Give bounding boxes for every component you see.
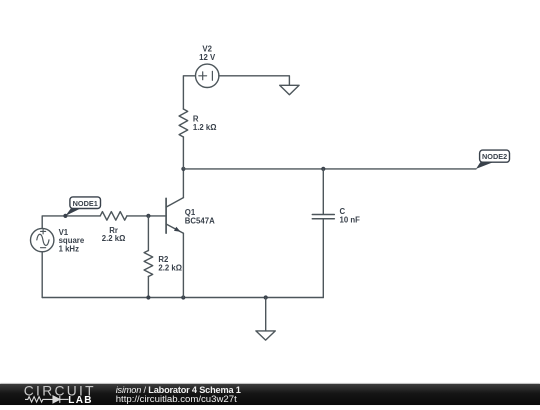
wire: R top to V2 xyxy=(183,76,195,109)
svg-text:NODE2: NODE2 xyxy=(482,152,507,161)
svg-text:NODE1: NODE1 xyxy=(73,199,98,208)
ground (V2 return) xyxy=(280,85,299,95)
wire: collector up to node xyxy=(182,169,184,198)
CircuitLab logo resistor+diode glyph and LAB xyxy=(25,396,69,403)
node NODE2 flag xyxy=(476,150,510,169)
wire: node down to C xyxy=(322,169,324,214)
wire: C bottom to ground rail xyxy=(322,219,324,298)
junction dot emitter/ground rail xyxy=(181,295,185,299)
wire: collector node to NODE2 (output net) xyxy=(183,168,476,170)
value label V2 12 V xyxy=(199,45,216,62)
value label C 10 nF xyxy=(340,207,361,224)
svg-text:1 kHz: 1 kHz xyxy=(59,244,79,253)
footer bar xyxy=(0,384,540,405)
svg-text:BC547A: BC547A xyxy=(185,217,215,226)
resistor R2 xyxy=(144,251,153,277)
junction dot collector node xyxy=(181,167,185,171)
wire: R2 bottom to ground rail xyxy=(147,277,149,298)
resistor Rr xyxy=(100,212,127,221)
node A junction dot (base / R2 tap) xyxy=(146,214,150,218)
junction dot capacitor tap xyxy=(321,167,325,171)
ground (bottom rail) xyxy=(256,298,275,341)
wire: bottom ground rail xyxy=(42,297,323,299)
junction dot R2/ground rail xyxy=(146,295,150,299)
value label Q1 BC547A xyxy=(185,208,215,226)
value label V1 square 1 kHz xyxy=(59,228,85,254)
footer title text xyxy=(116,385,241,405)
svg-text:http://circuitlab.com/cu3w27t: http://circuitlab.com/cu3w27t xyxy=(116,394,237,405)
wire: V2 plus lead to ground xyxy=(219,76,290,86)
svg-text:2.2 kΩ: 2.2 kΩ xyxy=(102,234,126,243)
svg-text:1.2 kΩ: 1.2 kΩ xyxy=(193,123,217,132)
wire: V1 bottom lead to ground rail xyxy=(41,252,43,298)
node NODE1 flag xyxy=(63,197,100,218)
wire: junction down to R2 xyxy=(147,216,149,251)
voltage source V2 xyxy=(196,64,219,87)
CircuitLab logo wordmark CIRCUIT xyxy=(24,384,96,399)
wire: V1 top lead to Rr (net NODE1) xyxy=(42,216,100,229)
junction dot ground symbol tap xyxy=(264,295,268,299)
svg-text:LAB: LAB xyxy=(68,395,92,405)
wire: Rr to Q1 base xyxy=(127,215,166,217)
capacitor C xyxy=(312,215,334,219)
value label Rr 2.2 kΩ xyxy=(102,226,126,243)
svg-text:2.2 kΩ: 2.2 kΩ xyxy=(158,263,182,272)
value label R 1.2 kΩ xyxy=(193,114,217,132)
svg-text:10 nF: 10 nF xyxy=(340,216,361,225)
transistor Q1 xyxy=(166,198,183,234)
wire: emitter to ground rail xyxy=(182,233,184,297)
resistor R xyxy=(179,109,188,137)
svg-text:12 V: 12 V xyxy=(199,53,216,62)
value label R2 2.2 kΩ xyxy=(158,255,182,272)
wire: collector node up to R xyxy=(182,137,184,169)
voltage source V1 xyxy=(31,228,54,251)
